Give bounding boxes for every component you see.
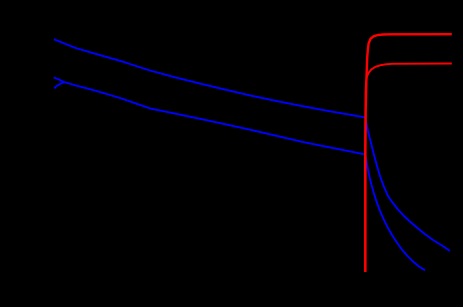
blue curve lower, start branch A (upper fork) bbox=[54, 77, 64, 82]
blue curve upper, steep decay after red line (outer) bbox=[366, 118, 451, 251]
blue curve lower, start branch B (lower fork) bbox=[54, 82, 64, 88]
red curve upper: vertical rise and plateau bbox=[365, 34, 451, 272]
blue curve lower-left merged segment bbox=[64, 82, 365, 154]
red curve lower: vertical rise and plateau bbox=[365, 64, 452, 272]
blue curve upper-left segment bbox=[54, 39, 366, 117]
blue curve lower, steep decay after red line (inner) bbox=[365, 154, 425, 271]
